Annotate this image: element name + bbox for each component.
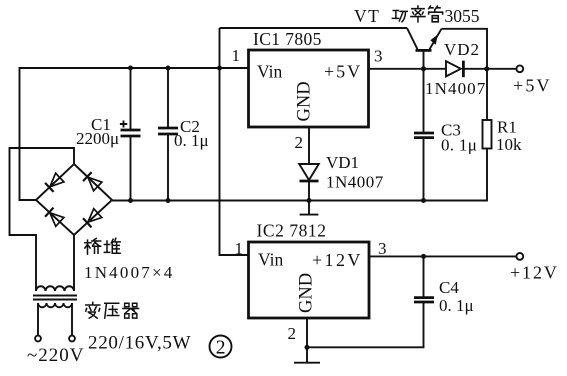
label 桥堆 [85, 238, 120, 254]
bridge diode bottom-left [45, 208, 64, 227]
svg-text:C4: C4 [439, 278, 459, 297]
svg-text:+12V: +12V [510, 263, 559, 283]
junction dot top rail / C2 [166, 66, 171, 71]
junction dot VD1/ground [307, 198, 312, 203]
IC2 7812 box [249, 242, 370, 318]
junction dot top rail / C1 [128, 66, 133, 71]
AC input terminal left [35, 336, 41, 342]
figure number 2 circled [210, 336, 232, 359]
bridge diode bottom-right [83, 209, 102, 228]
junction dot VT base / C3 / IC1 out [421, 66, 426, 71]
svg-text:3: 3 [374, 47, 383, 66]
transformer 变压器 secondary winding [36, 235, 74, 291]
diode VD2 1N4007 [446, 61, 516, 78]
bridge rectifier diamond 桥堆 [36, 164, 112, 235]
junction dot VT emitter / VD2 cathode [484, 66, 489, 71]
svg-text:1N4007: 1N4007 [326, 173, 384, 192]
svg-text:1N4007×4: 1N4007×4 [84, 263, 174, 282]
svg-text:GND: GND [297, 273, 317, 313]
svg-text:IC1 7805: IC1 7805 [253, 29, 322, 49]
label 变压器 [86, 302, 139, 318]
junction dot C3/ground [421, 198, 426, 203]
IC2 output wire pin 3 [369, 255, 516, 257]
svg-text:+5V: +5V [324, 62, 362, 82]
ground rail [112, 149, 487, 201]
+5V output terminal [516, 65, 523, 72]
IC2 GND wire pin 2 [306, 318, 308, 347]
+12V output terminal [516, 253, 523, 260]
transformer primary winding [38, 303, 72, 336]
transistor VT 3055 [407, 28, 487, 69]
label 功率管3055 [392, 6, 479, 26]
capacitor C3 0.1u [414, 69, 434, 201]
svg-text:1: 1 [232, 46, 241, 65]
svg-text:VT: VT [354, 6, 380, 26]
svg-text:+12V: +12V [312, 250, 363, 270]
ground stub below VD1 [300, 201, 319, 215]
wire: raw DC from bridge top vertex around left side to transformer secondary left [10, 148, 75, 291]
svg-text:0. 1μ: 0. 1μ [174, 131, 209, 150]
wire: node down to IC2 Vin pin 1 [220, 28, 249, 255]
svg-text:0. 1μ: 0. 1μ [439, 296, 474, 315]
svg-text:220/16V,5W: 220/16V,5W [88, 333, 191, 354]
svg-text:VD1: VD1 [326, 153, 359, 172]
bridge diode top-right [83, 172, 102, 191]
bridge diode top-left [45, 173, 64, 192]
svg-text:R1: R1 [497, 118, 517, 137]
capacitor C2 0.1u [158, 68, 178, 201]
svg-text:+5V: +5V [513, 76, 552, 96]
svg-text:3: 3 [378, 239, 387, 258]
svg-text:Vin: Vin [257, 62, 282, 82]
svg-text:3055: 3055 [445, 6, 480, 26]
svg-text:GND: GND [295, 81, 315, 121]
svg-text:VD2: VD2 [444, 40, 480, 59]
IC1 7805 box [249, 50, 369, 127]
transformer core [33, 296, 77, 300]
svg-text:2: 2 [295, 133, 304, 152]
svg-text:2: 2 [216, 338, 226, 359]
svg-text:0. 1μ: 0. 1μ [441, 136, 477, 155]
svg-text:1N4007: 1N4007 [425, 79, 486, 98]
junction dot main node to IC1/IC2/VT [217, 66, 222, 71]
IC1 GND wire pin 2 with VD1 1N4007 [299, 127, 319, 201]
AC input terminal right [69, 336, 75, 342]
junction dot C4 / IC2 out [421, 254, 426, 259]
capacitor C4 0.1u [307, 256, 434, 347]
wire: top +DC rail from bridge output to IC1 Vin [20, 68, 249, 200]
junction dot C1/ground [128, 198, 133, 203]
svg-text:10k: 10k [496, 135, 522, 154]
ground stub below IC2 [294, 347, 320, 362]
svg-text:2: 2 [288, 324, 297, 343]
svg-text:~220V: ~220V [27, 345, 85, 366]
junction dot IC2 gnd / C4 [305, 345, 310, 350]
svg-text:1: 1 [235, 239, 244, 258]
svg-text:IC2 7812: IC2 7812 [257, 221, 327, 241]
IC1 output wire pin 3 [369, 68, 447, 70]
resistor R1 10k [483, 69, 492, 149]
junction dot C2/ground [166, 198, 171, 203]
svg-text:2200μ: 2200μ [76, 129, 119, 148]
capacitor C1 2200u [120, 68, 141, 201]
wire: node up and right to VT collector [220, 27, 408, 29]
svg-text:Vin: Vin [258, 250, 283, 270]
